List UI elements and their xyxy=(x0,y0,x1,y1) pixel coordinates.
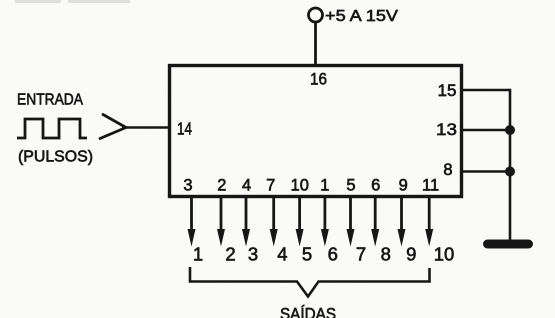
svg-text:9: 9 xyxy=(399,177,408,195)
svg-text:8: 8 xyxy=(381,244,391,265)
svg-text:(PULSOS): (PULSOS) xyxy=(18,149,93,166)
svg-text:15: 15 xyxy=(438,82,457,100)
svg-text:8: 8 xyxy=(443,161,452,179)
svg-text:2: 2 xyxy=(217,177,226,195)
wire input to pin 14 xyxy=(122,126,168,129)
svg-text:10: 10 xyxy=(434,244,455,265)
svg-text:5: 5 xyxy=(302,244,312,265)
output arrow 3 xyxy=(242,198,250,247)
wire pin 13 xyxy=(462,129,510,132)
wire pin 8 xyxy=(462,170,510,173)
output arrow 7 xyxy=(347,198,355,247)
IC body U1 xyxy=(170,66,462,197)
ground bus wire xyxy=(509,89,512,241)
svg-text:6: 6 xyxy=(328,244,338,265)
junction dot pin 13 xyxy=(505,125,515,135)
input arrowhead xyxy=(100,115,126,139)
svg-text:7: 7 xyxy=(356,244,366,265)
scan smudge top-left xyxy=(15,0,61,3)
svg-text:ENTRADA: ENTRADA xyxy=(17,92,83,109)
output arrow 9 xyxy=(398,198,406,247)
output arrow 1 xyxy=(188,198,196,247)
svg-text:1: 1 xyxy=(193,244,203,265)
svg-text:+5 A 15V: +5 A 15V xyxy=(325,8,398,25)
supply terminal circle xyxy=(309,8,323,22)
svg-text:SAÍDAS: SAÍDAS xyxy=(280,305,336,318)
svg-text:3: 3 xyxy=(183,177,192,195)
junction dot pin 8 xyxy=(505,167,515,177)
svg-text:11: 11 xyxy=(422,177,439,195)
svg-text:9: 9 xyxy=(406,244,416,265)
svg-text:5: 5 xyxy=(346,177,355,195)
output arrow 8 xyxy=(371,198,379,247)
svg-text:2: 2 xyxy=(225,244,235,265)
svg-text:10: 10 xyxy=(291,177,309,195)
brace xyxy=(190,267,430,297)
svg-text:13: 13 xyxy=(436,121,457,139)
svg-text:6: 6 xyxy=(371,177,380,195)
svg-text:4: 4 xyxy=(277,244,287,265)
wire supply to pin 16 xyxy=(314,22,317,65)
output arrow 5 xyxy=(296,198,304,247)
svg-text:7: 7 xyxy=(266,177,275,195)
svg-text:14: 14 xyxy=(177,119,192,139)
output arrow 4 xyxy=(270,198,278,247)
svg-text:3: 3 xyxy=(248,244,258,265)
svg-text:4: 4 xyxy=(242,177,251,195)
svg-text:16: 16 xyxy=(310,70,327,89)
output arrow 2 xyxy=(217,198,225,247)
ground xyxy=(483,240,533,249)
svg-text:1: 1 xyxy=(320,177,329,195)
pulse waveform xyxy=(17,119,87,138)
output arrow 10 xyxy=(425,198,433,247)
wire pin 15 xyxy=(462,89,510,92)
output arrow 6 xyxy=(321,198,329,247)
